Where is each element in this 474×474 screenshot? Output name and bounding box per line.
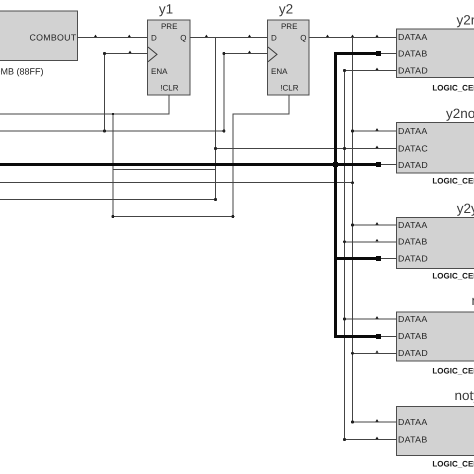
svg-text:DATAB: DATAB: [398, 434, 428, 444]
svg-text:y2y: y2y: [457, 201, 474, 216]
wire y1.Q vertical drop: [215, 37, 216, 200]
svg-text:Q: Q: [300, 33, 306, 42]
wire y1 !CLR drop: [168, 95, 169, 115]
junction dot clk branch 1: [103, 130, 106, 133]
junction dot b3.DATAA branch: [351, 224, 354, 227]
thick net junction blob: [333, 162, 338, 167]
junction dot y1.Q left branch: [214, 198, 217, 201]
pin tick b3.DATAB: [376, 239, 379, 241]
junction dot b2.DATAA branch: [351, 130, 354, 133]
svg-text:LOGIC_CELL: LOGIC_CELL: [432, 177, 474, 186]
svg-text:LOGIC_CELL: LOGIC_CELL: [432, 84, 474, 93]
thick net end cap b2.DATAD: [376, 162, 381, 167]
wire y1.Q stub branch: [112, 169, 216, 170]
pin tick b2.DATAA: [376, 128, 379, 130]
wire y1.Q branch to left edge: [0, 199, 216, 200]
junction dot y1.Q DATAC branch: [214, 147, 217, 150]
junction dot b5.DATAB corner: [343, 438, 346, 441]
fanout tick on y1 D wire: [128, 35, 131, 37]
wire b5.DATAB: [344, 439, 397, 440]
flip-flop y2 body: [268, 20, 310, 95]
svg-text:y2: y2: [279, 2, 293, 17]
highlighted thick branch to b4.DATAB: [334, 335, 378, 338]
svg-text:LOGIC_CELL: LOGIC_CELL: [432, 366, 474, 375]
highlighted thick net vertical: [334, 53, 337, 338]
wire y2.Q fanout vertical: [352, 37, 353, 423]
pin tick b5.DATAA: [376, 419, 379, 421]
pin tick b1.DATAD: [376, 68, 379, 70]
fanout tick on y2.Q wire b: [351, 35, 354, 37]
junction dot b1.DATAD branch: [343, 69, 346, 72]
thin stub cap-to-pin b2.DATAD: [381, 164, 397, 165]
svg-text:DATAA: DATAA: [398, 126, 428, 136]
svg-text:!CLR: !CLR: [280, 84, 298, 93]
junction dot y2.Q left branch: [351, 181, 354, 184]
svg-text:DATAC: DATAC: [398, 143, 428, 153]
thick net end cap b1.DATAB: [376, 51, 381, 56]
svg-text:LOGIC_CELL: LOGIC_CELL: [432, 272, 474, 281]
wire ACLR U left vertical: [112, 114, 113, 217]
svg-text:DATAD: DATAD: [398, 66, 428, 76]
wire b1.DATAD: [344, 70, 397, 71]
svg-text:D: D: [151, 33, 157, 42]
svg-text:D: D: [271, 33, 277, 42]
svg-text:DATAA: DATAA: [398, 32, 428, 42]
junction dot ACLR corner right: [231, 215, 234, 218]
junction dot clk corner 2: [222, 52, 225, 55]
fanout tick on y1.Q wire b: [248, 35, 251, 37]
fanout tick on y1.Q wire a: [205, 35, 208, 37]
junction dot b5.DATAA corner: [351, 421, 354, 424]
wire clk to y2 clock: [223, 53, 267, 54]
junction dot b4.DATAD branch: [351, 352, 354, 355]
fanout tick on COMBOUT wire: [94, 35, 97, 37]
junction dot ACLR tee: [112, 113, 114, 115]
svg-text:DATAD: DATAD: [398, 254, 428, 264]
wire b4.DATAD: [352, 353, 397, 354]
logic cell block 4: [397, 312, 474, 361]
logic cell block 5 (not...): [397, 406, 474, 455]
junction dot b3.DATAB branch: [343, 240, 346, 243]
junction dot b4.DATAA branch: [343, 318, 346, 321]
logic cell block 1 (y2n...): [397, 29, 474, 78]
wire y2.Q to b1.DATAA: [309, 37, 397, 38]
junction dot y1.Q fanout at DATAC: [343, 147, 346, 150]
svg-text:!CLR: !CLR: [160, 84, 178, 93]
highlighted thick branch to b1.DATAB: [334, 52, 378, 55]
wire b2.DATAC: [215, 148, 397, 149]
pin tick b1.DATAA: [376, 35, 379, 37]
wire y2 !CLR drop: [288, 95, 289, 115]
svg-text:DATAA: DATAA: [398, 314, 428, 324]
svg-text:PRE: PRE: [161, 22, 177, 31]
svg-text:ENA: ENA: [271, 67, 288, 76]
pin tick b4.DATAA: [376, 316, 379, 318]
svg-text:y2n: y2n: [457, 13, 474, 28]
fanout tick on y1 clock wire: [129, 51, 132, 53]
highlighted thick branch to b3.DATAD: [334, 257, 378, 260]
wire b5.DATAA: [352, 422, 397, 423]
thin stub cap-to-pin b3.DATAD: [381, 258, 397, 259]
flip-flop y1 clock wedge: [148, 47, 157, 62]
svg-text:DATAB: DATAB: [398, 237, 428, 247]
wire clock net main: [0, 131, 224, 132]
wire clk branch 1 vertical: [104, 53, 105, 132]
pin tick b2.DATAC: [376, 146, 379, 148]
svg-text:DATAA: DATAA: [398, 220, 428, 230]
svg-text:noty: noty: [455, 388, 474, 403]
logic cell block 3 (y2y...): [397, 217, 474, 268]
wire ACLR horizontal left: [0, 114, 169, 115]
wire COMBOUT to y1.D: [77, 37, 148, 38]
thin stub cap-to-pin b4.DATAB: [381, 336, 397, 337]
wire clk branch 2 vertical: [223, 53, 224, 132]
flip-flop y2 clock wedge: [268, 47, 277, 62]
svg-text:DATAB: DATAB: [398, 331, 428, 341]
combinational source block (partially off-canvas left): [0, 11, 78, 61]
svg-text:DATAB: DATAB: [398, 48, 428, 58]
svg-text:COMBOUT: COMBOUT: [29, 32, 76, 42]
highlighted thick net horizontal to b2.DATAD: [0, 163, 378, 166]
thick net end cap b4.DATAB: [376, 334, 381, 339]
pin tick b3.DATAA: [376, 222, 379, 224]
pin tick b4.DATAD: [376, 350, 379, 352]
pin tick b5.DATAB: [376, 437, 379, 439]
wire b4.DATAA: [344, 319, 397, 320]
svg-text:ENA: ENA: [151, 67, 168, 76]
svg-text:DATAD: DATAD: [398, 160, 428, 170]
svg-text:y1: y1: [159, 2, 173, 17]
fanout tick on y2.Q wire a: [326, 35, 329, 37]
junction dot clk branch 2: [222, 130, 225, 133]
wire b2.DATAA: [352, 131, 397, 132]
thick net end cap b3.DATAD: [376, 256, 381, 261]
wire y2.Q branch to left edge: [0, 182, 353, 183]
thin stub cap-to-pin b1.DATAB: [381, 53, 397, 54]
wire ACLR horizontal right (y2 !CLR): [232, 114, 289, 115]
wire y1.Q to y2.D: [190, 37, 268, 38]
wire ACLR bottom of U: [112, 216, 233, 217]
flip-flop y1 body: [148, 20, 191, 95]
fanout tick on y2 clock wire: [248, 51, 251, 53]
svg-text:DATAD: DATAD: [398, 348, 428, 358]
svg-text:PRE: PRE: [281, 22, 297, 31]
svg-text:COMB (88FF): COMB (88FF): [0, 67, 44, 77]
svg-text:DATAA: DATAA: [398, 417, 428, 427]
svg-text:LOGIC_CELL: LOGIC_CELL: [432, 460, 474, 469]
wire b3.DATAB: [344, 241, 397, 242]
wire y1.Q fanout vertical: [344, 70, 345, 440]
junction dot ACLR corner: [111, 215, 114, 218]
svg-text:Q: Q: [180, 33, 186, 42]
svg-text:y2no: y2no: [446, 106, 474, 121]
wire clk to y1 clock: [104, 53, 148, 54]
logic cell block 2 (y2no...): [397, 122, 474, 173]
junction dot clk corner 1: [103, 52, 106, 55]
wire ACLR U right vertical: [232, 114, 233, 217]
wire b3.DATAA: [352, 225, 397, 226]
